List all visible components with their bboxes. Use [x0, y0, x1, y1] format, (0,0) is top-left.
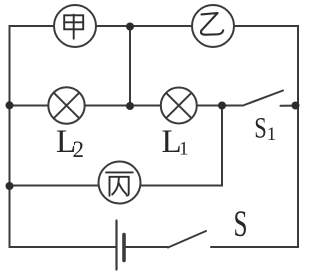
node: lamp-row middle junction	[126, 102, 134, 110]
wire lamp row left: left node to lamp L2	[10, 105, 49, 107]
node: S1 contact junction on right rail	[292, 102, 300, 110]
wire top-left: left corner to meter jia	[10, 26, 55, 105]
wire bing row right: meter bing to riser up to S1 pivot	[141, 106, 223, 186]
node: S1 pivot junction	[218, 102, 226, 110]
wire top-middle: meter jia to meter yi	[96, 25, 192, 27]
svg-text:S: S	[234, 204, 248, 245]
meter yi (circle)	[192, 5, 234, 47]
switch S1 (open blade)	[222, 91, 295, 106]
wire battery to switch S pivot	[124, 246, 168, 248]
lamp L1 (circle with X)	[161, 88, 197, 124]
wire lamp row right: L1 to S1 pivot node	[197, 105, 223, 107]
wire lamp row middle: L2 to L1	[85, 105, 162, 107]
meter bing glyph 丙	[106, 172, 133, 195]
wire right-lower: S1 contact down to bottom-right corner	[211, 106, 298, 248]
meter jia glyph 甲	[64, 15, 83, 39]
meter bing (circle)	[99, 162, 141, 204]
svg-text:1: 1	[267, 124, 277, 145]
switch S (open blade)	[168, 231, 206, 248]
wire top-right: meter yi to right corner down to switch S1 contact	[234, 26, 298, 106]
wire bing row left: left node to meter bing	[10, 185, 99, 187]
meter yi glyph 乙	[201, 13, 223, 35]
battery (cell)	[117, 221, 125, 270]
svg-text:1: 1	[179, 139, 189, 160]
meter jia (circle)	[54, 5, 96, 47]
wire middle vertical: top node to lamp-row node	[129, 27, 131, 107]
wire left vertical: lamp-row node down to bottom-left corner	[10, 105, 117, 247]
node: top middle junction	[126, 23, 134, 31]
svg-text:2: 2	[73, 137, 85, 162]
svg-text:S: S	[254, 111, 266, 144]
node: left bing-row junction	[6, 182, 14, 190]
lamp L2 (circle with X)	[48, 87, 84, 123]
node: left lamp-row junction	[6, 101, 14, 109]
